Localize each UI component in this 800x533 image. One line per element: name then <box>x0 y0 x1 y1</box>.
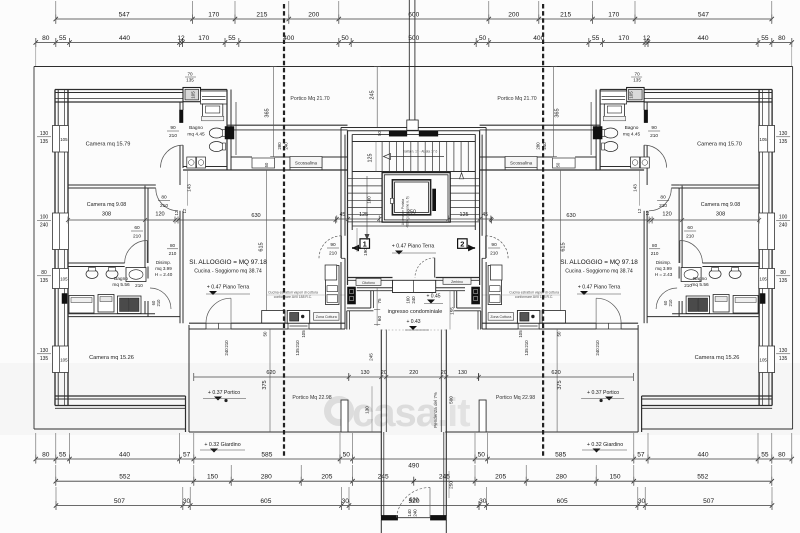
svg-text:80: 80 <box>778 35 786 42</box>
svg-text:250: 250 <box>407 210 416 216</box>
svg-text:50: 50 <box>555 162 560 167</box>
interior dim row left <box>68 219 336 221</box>
svg-text:50: 50 <box>479 35 487 42</box>
dimension extension ticks bottom <box>35 433 37 463</box>
closet boxes right <box>733 296 758 314</box>
svg-text:585: 585 <box>555 451 566 458</box>
svg-text:55: 55 <box>59 451 67 458</box>
center portico dim row <box>349 376 479 378</box>
svg-text:+ 0.47 Piano Terra: + 0.47 Piano Terra <box>392 244 435 250</box>
svg-text:60: 60 <box>687 225 693 231</box>
svg-text:Ascensore Portata: Ascensore Portata <box>401 199 405 225</box>
street gate arc <box>397 487 431 517</box>
stair direction arrow <box>391 156 445 158</box>
svg-text:Scossalina: Scossalina <box>510 161 533 166</box>
wall camera9 south left <box>68 262 125 264</box>
svg-text:Camera mq 15.26: Camera mq 15.26 <box>89 355 134 361</box>
svg-text:+ 0.47 Piano Terra: + 0.47 Piano Terra <box>207 285 250 291</box>
svg-text:240: 240 <box>779 223 788 229</box>
svg-text:210: 210 <box>490 251 498 257</box>
disimp door right <box>649 189 671 211</box>
section line A-A right <box>542 4 544 457</box>
svg-text:55: 55 <box>59 35 67 42</box>
svg-text:12: 12 <box>182 208 187 213</box>
dim 125 stair landing <box>375 142 377 172</box>
svg-text:520: 520 <box>410 498 419 504</box>
bagno top-wall window right <box>600 91 627 104</box>
svg-text:90: 90 <box>491 242 497 248</box>
street entrance walls <box>380 520 382 533</box>
wall camera-bagno right <box>646 102 648 110</box>
svg-text:mq 4.45: mq 4.45 <box>623 132 641 138</box>
svg-text:conformare AVII 188 R.C.: conformare AVII 188 R.C. <box>274 295 312 299</box>
bagno top-wall window left <box>201 91 228 104</box>
svg-text:105: 105 <box>60 277 68 282</box>
svg-text:Citofono: Citofono <box>362 281 375 285</box>
dim 143 left <box>187 170 189 206</box>
svg-text:200: 200 <box>308 11 319 18</box>
portico column left <box>341 400 348 432</box>
svg-text:60: 60 <box>377 316 382 322</box>
svg-text:45: 45 <box>482 212 488 218</box>
disimpegno walls right <box>681 186 683 263</box>
triangle marker <box>460 173 464 179</box>
svg-text:50: 50 <box>263 331 268 336</box>
unit arrow right <box>466 247 475 249</box>
svg-text:615: 615 <box>259 242 265 251</box>
svg-text:mq 3.99: mq 3.99 <box>655 266 672 271</box>
svg-text:Portico Mq 22.98: Portico Mq 22.98 <box>292 395 331 401</box>
svg-text:135: 135 <box>186 78 194 83</box>
chimney flue lines <box>408 0 410 128</box>
wall bagno5-camera15 left <box>68 313 155 315</box>
svg-text:12: 12 <box>637 208 642 213</box>
unit number box 2 <box>458 239 468 249</box>
svg-text:135: 135 <box>40 356 49 362</box>
svg-text:Pendenza del 7%: Pendenza del 7% <box>433 392 438 428</box>
svg-text:490: 490 <box>408 463 419 470</box>
svg-text:57: 57 <box>637 451 645 458</box>
svg-text:2: 2 <box>460 240 464 249</box>
closet boxes left <box>69 296 94 314</box>
svg-text:507: 507 <box>703 498 714 505</box>
outer boundary top <box>34 66 793 68</box>
dim 365 right <box>553 67 555 157</box>
svg-text:135: 135 <box>40 139 49 145</box>
svg-text:210: 210 <box>329 251 337 257</box>
svg-text:Camera mq 15.79: Camera mq 15.79 <box>86 142 131 148</box>
svg-text:308: 308 <box>102 212 111 218</box>
svg-text:55: 55 <box>761 451 769 458</box>
svg-text:50: 50 <box>341 35 349 42</box>
kitchen tall counter left <box>326 266 340 305</box>
svg-text:210: 210 <box>650 133 658 139</box>
stair lower flights treads <box>348 178 383 180</box>
svg-text:80: 80 <box>161 195 167 201</box>
svg-text:80: 80 <box>42 451 50 458</box>
svg-text:+ 0.32 Giardino: + 0.32 Giardino <box>204 442 240 448</box>
scossalina label box right <box>505 157 537 168</box>
svg-text:240: 240 <box>224 348 229 356</box>
core outer wall top <box>341 127 486 129</box>
svg-text:170: 170 <box>198 35 209 42</box>
unit number box 1 <box>360 239 370 249</box>
svg-text:Zerbino: Zerbino <box>451 280 463 284</box>
core wall right <box>479 130 481 285</box>
svg-text:552: 552 <box>119 474 130 481</box>
bagno5 door arc left <box>150 288 171 309</box>
svg-text:55: 55 <box>761 35 769 42</box>
svg-text:mq 5.56: mq 5.56 <box>112 282 130 288</box>
svg-text:280: 280 <box>536 142 541 150</box>
svg-text:308: 308 <box>716 212 725 218</box>
svg-text:105: 105 <box>760 277 768 282</box>
svg-text:170: 170 <box>208 11 219 18</box>
dim 190 lobby <box>356 228 358 252</box>
dim 375 right <box>556 329 558 432</box>
svg-text:ingresso condominiale: ingresso condominiale <box>388 309 443 315</box>
interior dim row right <box>492 219 759 221</box>
svg-text:630: 630 <box>251 213 260 219</box>
svg-text:90: 90 <box>330 242 336 248</box>
svg-text:120: 120 <box>155 212 164 218</box>
walkway wall left <box>380 330 382 516</box>
svg-text:190: 190 <box>363 248 368 256</box>
soggiorno bottom wall right <box>621 322 638 324</box>
svg-text:135: 135 <box>633 78 641 83</box>
svg-text:135: 135 <box>524 348 529 356</box>
wall camera9 south right <box>702 262 759 264</box>
svg-text:105: 105 <box>301 330 306 338</box>
watermark casa.it logo circle <box>328 400 351 423</box>
svg-text:210: 210 <box>686 234 694 240</box>
svg-text:20: 20 <box>441 370 447 376</box>
camera9 door arc left <box>146 241 148 264</box>
svg-text:Disimp.: Disimp. <box>656 260 671 265</box>
svg-text:H = 2.43: H = 2.43 <box>655 272 673 277</box>
bagno door arc left <box>161 145 184 168</box>
svg-text:80: 80 <box>780 270 786 276</box>
svg-text:170: 170 <box>608 11 619 18</box>
bagno5.56 fixtures right <box>729 270 741 279</box>
exterior side wall left wing <box>54 90 56 126</box>
dimension row bottom-C <box>56 505 772 507</box>
svg-text:280: 280 <box>277 142 282 150</box>
svg-text:Bagno: Bagno <box>114 276 128 282</box>
dim 155 walkway <box>449 291 451 330</box>
svg-text:552: 552 <box>697 474 708 481</box>
svg-text:210: 210 <box>169 133 177 139</box>
svg-text:240: 240 <box>413 509 418 517</box>
entrance steps right <box>456 291 458 308</box>
svg-text:220: 220 <box>409 370 418 376</box>
top exterior wall right wing <box>644 89 772 91</box>
bottom exterior wall left wing <box>55 395 186 397</box>
svg-text:210: 210 <box>295 340 300 348</box>
svg-text:170: 170 <box>618 35 629 42</box>
svg-text:80: 80 <box>41 270 47 276</box>
portico side wall left <box>185 396 187 432</box>
outer boundary left <box>33 67 35 430</box>
dimension row bottom-B <box>56 480 772 482</box>
svg-text:Bagno: Bagno <box>189 125 203 131</box>
core wall left <box>347 130 349 285</box>
svg-text:30: 30 <box>183 498 191 505</box>
svg-text:80: 80 <box>778 451 786 458</box>
svg-text:130: 130 <box>365 406 370 414</box>
svg-text:mq 4.45: mq 4.45 <box>187 132 205 138</box>
svg-text:12: 12 <box>177 35 185 42</box>
outer boundary bottom-right <box>642 428 793 430</box>
wall flue box right <box>760 294 765 304</box>
svg-text:215: 215 <box>560 11 571 18</box>
bagno4.45 fixtures left <box>203 104 223 116</box>
svg-text:500: 500 <box>408 35 419 42</box>
svg-text:+ 0.45: + 0.45 <box>426 294 440 300</box>
svg-text:240: 240 <box>411 296 416 304</box>
lobby side box right <box>490 265 502 280</box>
svg-text:280: 280 <box>556 474 567 481</box>
svg-text:100: 100 <box>40 215 49 221</box>
svg-text:70: 70 <box>187 72 193 77</box>
soggiorno bottom wall left <box>189 322 206 324</box>
svg-text:210: 210 <box>524 340 529 348</box>
svg-text:143: 143 <box>187 184 192 192</box>
svg-text:30: 30 <box>479 498 487 505</box>
svg-text:620: 620 <box>551 370 560 376</box>
svg-text:605: 605 <box>557 498 568 505</box>
svg-text:180: 180 <box>367 196 372 204</box>
svg-text:Zona Cottura: Zona Cottura <box>316 315 337 319</box>
svg-text:365: 365 <box>265 108 271 117</box>
svg-text:615: 615 <box>561 242 567 251</box>
svg-text:80: 80 <box>660 195 666 201</box>
svg-text:12: 12 <box>645 210 650 215</box>
svg-text:Salita n. 17 - Alzata 17.6: Salita n. 17 - Alzata 17.6 <box>403 150 438 154</box>
bagno5.56 fixtures left <box>86 270 98 279</box>
svg-text:30: 30 <box>342 498 350 505</box>
french door swing arc right <box>596 298 621 323</box>
svg-text:90: 90 <box>170 125 176 131</box>
watermark band <box>0 363 800 435</box>
exterior side wall right wing <box>771 90 773 126</box>
svg-text:H = 2.40: H = 2.40 <box>155 272 173 277</box>
portico column dot left <box>224 399 227 402</box>
svg-text:Camera mq 9.08: Camera mq 9.08 <box>87 202 127 208</box>
portico floor edge left <box>189 431 382 433</box>
outer boundary right <box>792 67 794 430</box>
svg-text:55: 55 <box>592 35 600 42</box>
dim 130 walkway <box>371 386 373 432</box>
dimension row top-1 <box>56 18 772 20</box>
svg-text:80: 80 <box>652 243 658 248</box>
svg-text:105: 105 <box>760 357 768 362</box>
stair upper flight treads <box>381 142 383 172</box>
svg-text:130: 130 <box>458 370 467 376</box>
kitchen sink counter right <box>542 311 565 324</box>
svg-text:135: 135 <box>295 348 300 356</box>
svg-text:440: 440 <box>119 451 130 458</box>
stair lower arrow left <box>366 176 368 240</box>
dim 620 right <box>478 376 633 378</box>
svg-text:547: 547 <box>119 11 130 18</box>
svg-text:50: 50 <box>264 162 269 167</box>
svg-text:155: 155 <box>450 307 455 315</box>
lobby side box left <box>325 265 337 280</box>
core dim row 45-125 <box>337 218 380 220</box>
svg-text:130: 130 <box>779 348 788 354</box>
elevator cabin <box>392 180 430 215</box>
svg-text:440: 440 <box>119 35 130 42</box>
svg-text:440: 440 <box>697 451 708 458</box>
svg-text:210: 210 <box>169 251 177 256</box>
svg-text:SI. ALLOGGIO = MQ 97.18: SI. ALLOGGIO = MQ 97.18 <box>560 259 638 266</box>
svg-text:130: 130 <box>40 131 49 137</box>
svg-text:70: 70 <box>635 72 641 77</box>
walkway wall right <box>445 330 447 516</box>
svg-text:375: 375 <box>557 380 563 389</box>
svg-text:SI. ALLOGGIO = MQ 97.18: SI. ALLOGGIO = MQ 97.18 <box>189 259 267 266</box>
svg-text:Bagno: Bagno <box>625 125 639 131</box>
lobby label box left <box>356 278 381 285</box>
svg-text:Disimp.: Disimp. <box>156 260 171 265</box>
svg-text:120: 120 <box>662 212 671 218</box>
wall bagno5-camera15 right <box>672 313 759 315</box>
entrance door leaf and arc <box>434 258 436 278</box>
svg-text:105: 105 <box>760 137 768 142</box>
dim 375 left <box>269 329 271 432</box>
svg-text:Camera mq 9.08: Camera mq 9.08 <box>701 202 741 208</box>
svg-text:80: 80 <box>42 35 50 42</box>
french door bottom wall right <box>596 323 621 329</box>
svg-text:240: 240 <box>284 142 289 150</box>
svg-text:+ 0.47 Piano Terra: + 0.47 Piano Terra <box>578 285 621 291</box>
kitchen sink counter left <box>262 311 285 324</box>
svg-text:12: 12 <box>174 210 179 215</box>
svg-text:150: 150 <box>207 474 218 481</box>
svg-text:Camera mq 15.70: Camera mq 15.70 <box>697 142 742 148</box>
portico floor edge right <box>445 431 638 433</box>
svg-text:Zona Cottura: Zona Cottura <box>490 315 511 319</box>
disimp door left <box>156 189 178 211</box>
svg-text:Portico Mq 22.98: Portico Mq 22.98 <box>496 395 535 401</box>
top exterior wall left wing <box>55 89 183 91</box>
elevator shaft <box>382 173 450 223</box>
section line A-A left <box>283 4 285 457</box>
svg-text:245: 245 <box>439 474 450 481</box>
svg-text:conformare AVII 188 R.C.: conformare AVII 188 R.C. <box>515 295 553 299</box>
entrance steps left <box>357 287 364 289</box>
bottom exterior wall right wing <box>642 395 773 397</box>
svg-text:210: 210 <box>659 203 667 209</box>
dim 615 left <box>266 170 268 323</box>
zona cottura label right <box>488 313 513 321</box>
svg-text:105: 105 <box>60 137 68 142</box>
svg-text:240: 240 <box>40 223 49 229</box>
dim 620 left <box>194 376 349 378</box>
svg-text:Cucina - Soggiorno mq 38.74: Cucina - Soggiorno mq 38.74 <box>565 269 633 275</box>
svg-text:+ 0.43: + 0.43 <box>406 319 420 325</box>
svg-text:105: 105 <box>518 330 523 338</box>
dim 365 left <box>272 67 274 157</box>
kitchen tall counter right <box>488 266 502 305</box>
portico-soggiorno wall left <box>231 156 252 158</box>
svg-text:210: 210 <box>135 283 143 288</box>
portico column right <box>479 400 486 432</box>
stair mid landing line <box>352 171 475 173</box>
french door bottom wall left <box>206 323 231 329</box>
portico side wall right <box>641 396 643 432</box>
svg-text:50: 50 <box>377 131 382 136</box>
chimney pillar top wall left <box>183 88 201 102</box>
svg-text:210: 210 <box>595 340 600 348</box>
svg-text:205: 205 <box>321 474 332 481</box>
scossalina label box left <box>290 157 322 168</box>
dim 615 right <box>560 170 562 323</box>
svg-text:105: 105 <box>629 91 634 99</box>
svg-text:585: 585 <box>261 451 272 458</box>
walkway dotted portico edge <box>381 329 446 331</box>
scossalina window right <box>553 158 576 168</box>
electrical box left <box>225 127 234 140</box>
svg-text:57: 57 <box>183 451 191 458</box>
svg-text:240: 240 <box>542 142 547 150</box>
svg-text:507: 507 <box>114 498 125 505</box>
svg-text:200: 200 <box>508 11 519 18</box>
svg-text:30: 30 <box>638 498 646 505</box>
svg-text:100: 100 <box>779 215 788 221</box>
svg-text:Cucina - Soggiorno mq 38.74: Cucina - Soggiorno mq 38.74 <box>194 269 262 275</box>
svg-text:205: 205 <box>495 474 506 481</box>
svg-text:245: 245 <box>370 90 376 99</box>
svg-text:210: 210 <box>133 234 141 240</box>
svg-text:240: 240 <box>595 348 600 356</box>
svg-text:+ 0.37 Portico: + 0.37 Portico <box>208 390 240 396</box>
wall between cameras left <box>68 184 148 186</box>
svg-text:12: 12 <box>643 35 651 42</box>
svg-text:105: 105 <box>191 91 196 99</box>
svg-text:143: 143 <box>633 184 638 192</box>
svg-text:Camera mq 15.26: Camera mq 15.26 <box>695 355 740 361</box>
window bottom wall right <box>518 323 539 329</box>
svg-text:280: 280 <box>261 474 272 481</box>
svg-text:55: 55 <box>228 35 236 42</box>
window bottom wall left <box>288 323 309 329</box>
svg-text:130: 130 <box>361 370 370 376</box>
entrance threshold <box>393 280 436 292</box>
lobby label box right <box>443 278 471 285</box>
svg-text:210: 210 <box>651 251 659 256</box>
svg-text:20: 20 <box>381 370 387 376</box>
wall between cameras right <box>679 184 759 186</box>
svg-text:150: 150 <box>609 474 620 481</box>
svg-text:605: 605 <box>260 498 271 505</box>
camera9 door arc right <box>679 241 681 264</box>
boiler box right <box>472 287 480 304</box>
svg-text:210: 210 <box>224 340 229 348</box>
electrical box right <box>593 127 602 140</box>
svg-text:160: 160 <box>406 296 411 304</box>
svg-text:105: 105 <box>60 357 68 362</box>
windows right side wall <box>759 126 775 153</box>
svg-text:80: 80 <box>170 243 176 248</box>
bagno east wall left <box>226 90 228 171</box>
svg-text:+ 0.32 Giardino: + 0.32 Giardino <box>587 442 623 448</box>
svg-text:1: 1 <box>363 240 367 249</box>
dimension extension ticks top <box>55 1 57 24</box>
dim 143 right <box>639 170 641 206</box>
svg-text:mq 3.99: mq 3.99 <box>155 266 172 271</box>
